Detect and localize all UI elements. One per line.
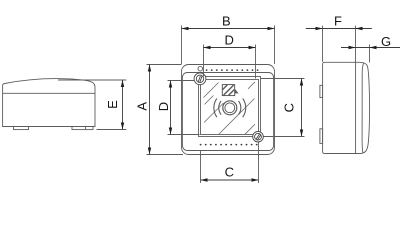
dimension C horizontal line bbox=[201, 179, 259, 181]
bottom ventilation dots bbox=[200, 144, 258, 146]
arrow D horiz left bbox=[204, 46, 211, 49]
arrow A top bbox=[148, 65, 151, 72]
wire hole above top screw bbox=[198, 66, 203, 71]
dimension C vertical line bbox=[301, 79, 303, 137]
arrow D vert bottom bbox=[169, 128, 172, 135]
front view window frame outer bbox=[199, 77, 261, 137]
wave arc right inner bbox=[239, 101, 241, 115]
front view body bbox=[182, 65, 275, 155]
side view lid seam bbox=[3, 92, 95, 94]
arrow F right bbox=[356, 27, 363, 30]
dimension A line bbox=[149, 65, 151, 155]
arrow C horiz left bbox=[201, 178, 208, 181]
arrow F left bbox=[316, 27, 323, 30]
glass hatch lines bbox=[203, 82, 255, 134]
dimension G line bbox=[341, 47, 400, 49]
svg-text:D: D bbox=[225, 33, 234, 48]
rear view upper tab bbox=[320, 85, 323, 97]
svg-text:A: A bbox=[135, 102, 150, 111]
dimension E line bbox=[122, 80, 124, 130]
dimension D horizontal line bbox=[204, 47, 256, 49]
side view left foot bbox=[14, 127, 29, 130]
dimension D horizontal extension lines bbox=[203, 45, 205, 77]
wave arc right outer bbox=[243, 98, 246, 117]
dimension F line bbox=[306, 28, 372, 30]
svg-text:C: C bbox=[225, 165, 234, 180]
rear view (right) body outline bbox=[323, 62, 370, 153]
svg-text:F: F bbox=[334, 14, 342, 29]
top ventilation dots bbox=[206, 69, 259, 71]
dimension E extension lines bbox=[58, 79, 126, 81]
arrow B right bbox=[268, 27, 275, 30]
front view window frame inner (glass) bbox=[201, 80, 259, 135]
dimension G extension line bbox=[369, 45, 371, 63]
svg-text:G: G bbox=[381, 34, 391, 49]
icon square hatching bbox=[223, 85, 235, 95]
dimension D vertical extension lines bbox=[168, 80, 195, 82]
side view right foot divider bbox=[85, 127, 87, 130]
side view right foot bbox=[72, 127, 93, 130]
svg-text:D: D bbox=[156, 102, 171, 111]
arrowheads bbox=[121, 27, 377, 182]
svg-text:E: E bbox=[105, 100, 120, 109]
arrow D horiz right bbox=[249, 46, 256, 49]
arrow A bottom bbox=[148, 148, 151, 155]
reader coil outer ring bbox=[223, 101, 237, 115]
rear view seam line 2 bbox=[362, 63, 364, 154]
arrow E bottom bbox=[121, 123, 124, 130]
arrow C vert top bbox=[300, 79, 303, 86]
rear view lower tab bbox=[320, 129, 323, 144]
dimension A extension lines bbox=[147, 64, 182, 66]
arrow D vert top bbox=[169, 81, 172, 88]
icon corner wedge bbox=[235, 89, 239, 94]
dimension C horizontal extension lines bbox=[200, 151, 202, 184]
arrow C vert bottom bbox=[300, 130, 303, 137]
screw top-left outer bbox=[194, 73, 206, 85]
arrow G left bbox=[349, 46, 356, 49]
dimension B extension lines bbox=[181, 25, 183, 64]
side view (left) body outline bbox=[3, 79, 95, 127]
front view inner face line bbox=[182, 73, 273, 151]
reader coil inner ring bbox=[225, 103, 235, 113]
screw bottom-right bbox=[253, 131, 264, 142]
dimension D vertical line bbox=[170, 81, 172, 135]
rear view seam line 1 bbox=[355, 62, 357, 153]
wave arc left outer bbox=[214, 98, 217, 117]
svg-text:C: C bbox=[281, 103, 296, 112]
dimension C vertical extension lines bbox=[261, 78, 305, 80]
wave arc left inner bbox=[219, 101, 221, 115]
arrow G right bbox=[370, 46, 377, 49]
arrow E top bbox=[121, 80, 124, 87]
arrow C horiz right bbox=[252, 178, 259, 181]
arrow B left bbox=[182, 27, 189, 30]
dimension F extension lines bbox=[322, 26, 324, 62]
svg-text:B: B bbox=[222, 14, 231, 29]
dimension B line bbox=[182, 28, 275, 30]
IR emitter icon square bbox=[222, 85, 234, 96]
